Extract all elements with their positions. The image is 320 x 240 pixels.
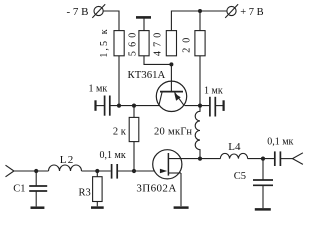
node R3 [95, 169, 99, 173]
node top rail [198, 9, 202, 13]
transistor Q2 3P602A [153, 150, 182, 207]
svg-text:0,1 мк: 0,1 мк [100, 150, 126, 161]
svg-text:C1: C1 [13, 184, 25, 195]
wire 20 top [199, 11, 201, 31]
wire L2 to R3 node [82, 170, 111, 172]
svg-text:L2: L2 [60, 154, 75, 166]
svg-text:- 7 В: - 7 В [67, 6, 89, 18]
svg-text:0,1 мк: 0,1 мк [267, 137, 293, 148]
inductor 20uH [195, 106, 200, 159]
ground (Q2 source) [174, 206, 189, 209]
resistor R1 1.5k [114, 31, 124, 56]
resistor 2k [129, 117, 139, 141]
ground (C1) [31, 206, 45, 209]
svg-text:+ 7 В: + 7 В [240, 7, 263, 18]
wire 2k bottom to gate row [133, 142, 135, 171]
svg-text:1 мк: 1 мк [204, 86, 223, 97]
node 2k top [132, 104, 136, 108]
node base junction [169, 62, 173, 66]
svg-text:470: 470 [153, 28, 164, 56]
output terminal [293, 153, 303, 165]
transistor Q1 KT361A [156, 81, 186, 111]
resistor 20 [195, 31, 205, 56]
wire R1 bottom to node A [118, 56, 120, 106]
wire -7V to R1 [103, 11, 119, 31]
capacitor 1uF right [210, 97, 224, 117]
node drain [198, 157, 202, 161]
inductor L4 [220, 153, 247, 158]
svg-text:1 мк: 1 мк [89, 84, 108, 95]
capacitor 0.1uF left [112, 164, 118, 179]
resistor 470 [166, 31, 176, 56]
wire 20 bottom to emitter node [199, 56, 201, 106]
svg-text:20 мкГн: 20 мкГн [154, 126, 192, 137]
svg-text:1,5 к: 1,5 к [99, 27, 110, 57]
svg-text:560: 560 [127, 28, 138, 56]
svg-text:КТ361А: КТ361А [128, 69, 166, 81]
svg-text:C5: C5 [234, 171, 246, 182]
ground (R3) [91, 206, 104, 209]
capacitor 0.1uF right [275, 151, 293, 166]
node C5 [261, 157, 265, 161]
ground (top of 560) [136, 17, 151, 30]
wire input to C1 node [14, 170, 49, 172]
ground (C5) [255, 208, 271, 211]
resistor 560 [139, 31, 149, 56]
svg-text:L4: L4 [228, 141, 241, 153]
svg-text:3П602А: 3П602А [136, 182, 176, 194]
wire L4 to C5 node [248, 158, 275, 160]
capacitor 1uF left [96, 96, 110, 116]
wire emitter to cap [185, 105, 210, 107]
power terminal -7V [92, 4, 105, 18]
node C1 [34, 169, 38, 173]
wire base [170, 64, 172, 81]
capacitor C1 [29, 171, 47, 206]
wire collector row [111, 105, 160, 107]
capacitor C5 [253, 159, 273, 209]
inductor L2 [49, 165, 82, 171]
wire 470 top to +7V rail [171, 11, 227, 31]
svg-text:2 к: 2 к [113, 126, 127, 137]
power terminal +7V [225, 4, 238, 18]
node emitter [198, 104, 202, 108]
wire gate [118, 170, 155, 172]
wire node to 2k [133, 106, 135, 118]
input terminal [6, 165, 14, 177]
node R1/collector [117, 104, 121, 108]
resistor R3 [93, 171, 103, 206]
svg-text:20: 20 [182, 33, 193, 53]
node gate row [132, 169, 136, 173]
svg-text:R3: R3 [79, 187, 91, 198]
wire 560 to base junction [144, 56, 171, 65]
wire drain row [168, 158, 220, 160]
